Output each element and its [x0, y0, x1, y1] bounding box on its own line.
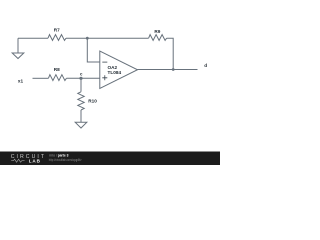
svg-text:mlo /: mlo / [49, 153, 58, 158]
svg-text:http://circuitlab.com/cqqp6fv: http://circuitlab.com/cqqp6fv [49, 158, 82, 162]
svg-text:d: d [204, 63, 207, 68]
svg-text:R7: R7 [54, 28, 60, 33]
svg-text:R9: R9 [154, 29, 160, 34]
svg-text:x1: x1 [18, 79, 24, 84]
svg-text:R8: R8 [54, 67, 60, 72]
svg-text:TL084: TL084 [108, 70, 122, 75]
svg-text:parte 3: parte 3 [58, 153, 69, 158]
svg-text:LAB: LAB [29, 158, 41, 163]
svg-text:R10: R10 [88, 98, 97, 103]
